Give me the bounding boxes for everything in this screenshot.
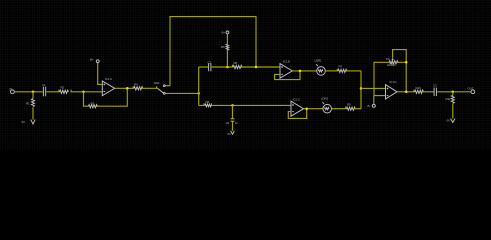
- wire R7 to bus2: [345, 70, 361, 72]
- wire feedback loop 1: [84, 88, 128, 106]
- wire output IC2a: [292, 70, 316, 72]
- node J1: [32, 91, 35, 94]
- svg-text:1n: 1n: [235, 121, 239, 125]
- svg-text:R5: R5: [221, 45, 225, 49]
- power VB3: [368, 104, 376, 108]
- wire switch low throw: [165, 92, 198, 94]
- wire input line: [15, 91, 43, 93]
- port IN: [10, 87, 15, 94]
- capacitor C9: [226, 119, 239, 125]
- LDR LDR1: [315, 59, 326, 76]
- svg-text:IC1.A: IC1.A: [105, 77, 112, 81]
- wire LDR1 to R7: [325, 70, 338, 72]
- resistor R8: [204, 100, 211, 107]
- node Jpot: [405, 61, 408, 64]
- wire bottom row from bus: [199, 104, 291, 106]
- wire row2 left: [199, 66, 208, 68]
- wire feedback IC2b: [288, 109, 306, 119]
- svg-text:LEVEL: LEVEL: [387, 63, 396, 67]
- power VB1: [90, 58, 99, 63]
- svg-text:LDR2: LDR2: [321, 97, 329, 101]
- svg-text:SW1: SW1: [154, 81, 161, 85]
- wire R9 to bus2: [354, 108, 361, 110]
- power VB2: [222, 31, 229, 35]
- node J4: [197, 92, 200, 95]
- op-amp IC2b: [291, 98, 304, 117]
- svg-text:C9: C9: [226, 121, 230, 125]
- wire bias to +in: [98, 63, 103, 85]
- svg-text:R4: R4: [134, 83, 138, 87]
- wire feedback IC2a: [275, 71, 300, 80]
- wire bus2 vertical: [360, 71, 362, 109]
- wire R2 to opamp: [70, 91, 102, 93]
- svg-text:R8: R8: [206, 100, 210, 104]
- resistor R3: [88, 102, 97, 108]
- node J7: [299, 70, 302, 73]
- node J8: [305, 107, 308, 110]
- wire VB2 down: [226, 34, 228, 67]
- capacitor C3: [433, 83, 437, 96]
- ground output: [447, 119, 456, 123]
- resistor R10: [414, 86, 424, 93]
- wire R6 to IC2a: [241, 66, 280, 68]
- wire R11 branch: [452, 92, 454, 119]
- switch SW1: [154, 81, 166, 94]
- svg-text:R10: R10: [416, 86, 422, 90]
- node J3: [126, 87, 129, 90]
- wire J9 stub: [232, 105, 234, 130]
- svg-text:C3: C3: [433, 83, 437, 87]
- svg-text:0V: 0V: [22, 120, 26, 124]
- wire VB3 stub: [373, 96, 375, 104]
- svg-text:R6: R6: [234, 61, 238, 65]
- wire R4 to switch: [141, 87, 157, 89]
- svg-text:R3: R3: [91, 102, 95, 106]
- resistor R6: [232, 61, 242, 69]
- wire switch up throw to top loop: [165, 17, 256, 86]
- wire R10 to C3: [422, 91, 434, 93]
- wire C1-R2: [47, 91, 60, 93]
- svg-text:B+: B+: [222, 31, 226, 35]
- resistor R11: [446, 95, 455, 103]
- potentiometer P1: [386, 57, 398, 67]
- svg-text:R7: R7: [339, 65, 343, 69]
- wire pot right and wiper loop: [393, 50, 407, 92]
- svg-text:R9: R9: [347, 103, 351, 107]
- wire to IC3 +in: [361, 87, 386, 89]
- wire R1 branch: [32, 92, 34, 120]
- svg-text:C2: C2: [208, 61, 212, 65]
- svg-text:R2: R2: [61, 85, 65, 89]
- port OUT: [468, 87, 475, 94]
- svg-text:IN: IN: [10, 87, 13, 91]
- capacitor C2: [208, 61, 212, 72]
- svg-text:LDR1: LDR1: [315, 59, 323, 63]
- capacitor C1: [42, 83, 46, 96]
- svg-text:R1: R1: [26, 102, 30, 106]
- wire C2 to R6: [212, 66, 233, 68]
- svg-text:IC1.B: IC1.B: [283, 60, 290, 64]
- wire output stage1: [115, 87, 134, 89]
- svg-text:R11: R11: [446, 97, 451, 101]
- ground C9: [228, 131, 235, 136]
- resistor R7: [337, 65, 346, 73]
- wire C3 to OUT: [437, 91, 471, 93]
- LDR LDR2: [321, 97, 332, 113]
- svg-text:OUT: OUT: [468, 87, 474, 91]
- node J11: [405, 91, 408, 94]
- svg-text:B+: B+: [90, 58, 94, 62]
- ground input: [22, 120, 36, 124]
- wire IC3 output: [397, 91, 415, 93]
- resistor R9: [346, 103, 355, 111]
- svg-text:0V: 0V: [228, 132, 232, 136]
- wire output IC2b: [304, 108, 323, 110]
- op-amp IC2a: [280, 60, 292, 79]
- resistor R2: [59, 85, 71, 93]
- wire LDR2 to R9: [332, 108, 347, 110]
- svg-text:0V: 0V: [447, 119, 451, 123]
- svg-text:IC1.D: IC1.D: [390, 80, 398, 84]
- node J2: [82, 91, 85, 94]
- svg-text:C1: C1: [42, 83, 46, 87]
- resistor R4: [133, 83, 142, 90]
- resistor R1: [26, 99, 35, 107]
- op-amp IC3: [386, 80, 398, 99]
- node J6: [226, 66, 229, 69]
- op-amp IC1: [102, 77, 114, 96]
- wire IC3 -in feedback riser: [374, 62, 389, 95]
- node J9: [231, 104, 234, 107]
- wire vertical bus: [198, 67, 200, 105]
- node J5: [255, 66, 258, 69]
- svg-text:IC1.C: IC1.C: [293, 98, 301, 102]
- svg-text:B-: B-: [368, 104, 371, 108]
- node J12: [452, 91, 455, 94]
- resistor R5: [221, 44, 229, 50]
- node J10: [360, 87, 363, 90]
